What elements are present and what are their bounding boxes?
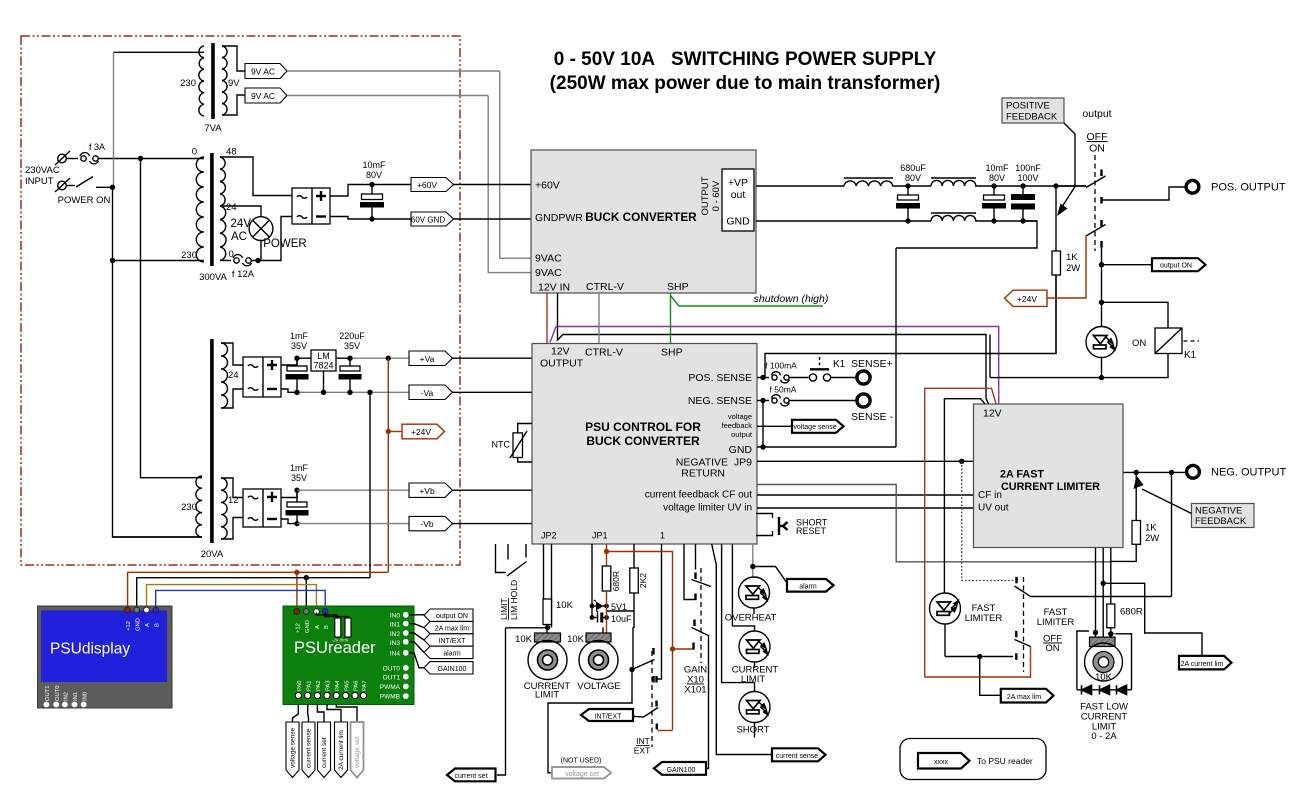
svg-text:voltage set: voltage set (354, 736, 361, 768)
svg-text:FEEDBACK: FEEDBACK (1195, 516, 1247, 527)
svg-text:POSITIVE: POSITIVE (1006, 101, 1050, 112)
svg-text:PA5: PA5 (344, 680, 350, 691)
svg-text:100V: 100V (1017, 173, 1038, 183)
svg-text:2A max lim: 2A max lim (1007, 694, 1041, 701)
svg-text:1K: 1K (1145, 523, 1157, 534)
svg-text:OUT0: OUT0 (383, 666, 401, 673)
svg-text:PA6: PA6 (354, 680, 360, 691)
svg-text:INPUT: INPUT (25, 176, 54, 187)
svg-text:12V: 12V (983, 408, 1002, 420)
svg-text:9VAC: 9VAC (535, 267, 562, 279)
svg-text:LIMIT: LIMIT (499, 598, 509, 620)
svg-text:2A max lim: 2A max lim (435, 626, 469, 633)
svg-text:A: A (145, 623, 151, 627)
svg-text:RESET: RESET (796, 526, 827, 536)
svg-text:f 100mA: f 100mA (765, 361, 797, 371)
svg-text:PA2: PA2 (316, 680, 322, 691)
svg-text:LIMITER: LIMITER (965, 613, 1003, 624)
svg-text:+Vb: +Vb (419, 486, 435, 496)
svg-text:12V IN: 12V IN (538, 282, 570, 294)
svg-text:SENSE+: SENSE+ (851, 358, 893, 370)
svg-text:GND: GND (726, 216, 750, 228)
svg-text:48: 48 (226, 147, 237, 158)
svg-text:PA3: PA3 (326, 680, 332, 691)
svg-text:2W: 2W (1066, 263, 1080, 274)
svg-text:POS. SENSE: POS. SENSE (688, 372, 752, 384)
svg-text:LIMITER: LIMITER (1037, 617, 1075, 628)
svg-text:1mF: 1mF (290, 331, 309, 341)
svg-text:OUT1: OUT1 (383, 675, 401, 682)
svg-text:10mF: 10mF (362, 160, 386, 170)
svg-text:K1: K1 (1184, 350, 1197, 361)
svg-text:0 - 2A: 0 - 2A (1091, 731, 1117, 742)
svg-text:SHP: SHP (661, 347, 683, 359)
svg-text:1: 1 (660, 531, 665, 541)
svg-text:voltage limiter UV in: voltage limiter UV in (663, 503, 752, 514)
svg-text:300VA: 300VA (199, 272, 227, 283)
svg-text:NEG. SENSE: NEG. SENSE (688, 395, 752, 407)
svg-text:(250W max power due to main tr: (250W max power due to main transformer) (550, 73, 941, 94)
svg-text:IN4: IN4 (390, 651, 401, 658)
svg-text:SENSE -: SENSE - (851, 411, 894, 423)
svg-text:OFF: OFF (1087, 131, 1108, 143)
svg-text:current sense: current sense (306, 728, 313, 768)
svg-text:7824: 7824 (313, 361, 333, 371)
svg-text:AC: AC (231, 231, 247, 243)
svg-text:FEEDBACK: FEEDBACK (1006, 112, 1058, 123)
svg-text:POWER ON: POWER ON (58, 195, 111, 206)
svg-text:voltage set: voltage set (565, 771, 599, 778)
svg-text:IN1: IN1 (73, 692, 79, 701)
svg-text:100nF: 100nF (1015, 163, 1041, 173)
svg-text:IN1: IN1 (390, 622, 401, 629)
svg-text:80V: 80V (989, 173, 1005, 183)
svg-text:alarm: alarm (799, 583, 817, 590)
svg-text:EXT: EXT (634, 746, 651, 756)
svg-text:GND: GND (729, 444, 753, 456)
svg-text:B: B (324, 625, 330, 629)
svg-text:0 - 60V: 0 - 60V (711, 180, 722, 211)
svg-text:680uF: 680uF (900, 163, 926, 173)
svg-text:230VAC: 230VAC (25, 165, 60, 176)
svg-text:SHP: SHP (667, 281, 689, 293)
svg-text:10K: 10K (556, 600, 574, 611)
svg-text:10K: 10K (567, 634, 585, 645)
svg-text:12V: 12V (551, 346, 570, 358)
svg-text:CTRL-V: CTRL-V (586, 281, 624, 293)
svg-text:current set: current set (454, 773, 487, 780)
svg-text:POS. OUTPUT: POS. OUTPUT (1211, 182, 1286, 194)
svg-text:A: A (315, 625, 321, 629)
svg-text:1K: 1K (1066, 252, 1078, 263)
svg-text:2W: 2W (1145, 533, 1159, 544)
svg-text:output ON: output ON (1160, 263, 1192, 270)
svg-text:24V: 24V (231, 218, 252, 230)
svg-text:voltage: voltage (728, 412, 752, 421)
svg-text:-Va: -Va (421, 388, 434, 398)
svg-text:output ON: output ON (436, 613, 468, 620)
svg-text:35V: 35V (291, 473, 307, 483)
svg-text:0: 0 (192, 147, 197, 158)
svg-text:JP2: JP2 (541, 531, 557, 541)
svg-text:INT: INT (636, 736, 650, 746)
svg-text:CTRL-V: CTRL-V (585, 347, 623, 359)
svg-text:680R: 680R (1120, 607, 1143, 618)
svg-text:RETURN: RETURN (681, 468, 725, 480)
svg-text:NEG. OUTPUT: NEG. OUTPUT (1211, 467, 1286, 479)
svg-text:xxxx: xxxx (934, 759, 949, 766)
svg-text:-Vb: -Vb (420, 519, 434, 529)
svg-text:out: out (731, 189, 746, 201)
svg-text:alarm: alarm (443, 651, 461, 658)
svg-text:PWMA: PWMA (380, 684, 401, 691)
svg-text:JP1: JP1 (592, 531, 608, 541)
svg-text:1mF: 1mF (290, 463, 309, 473)
svg-text:OUT0: OUT0 (55, 686, 61, 701)
svg-text:+12: +12 (296, 623, 302, 633)
svg-text:10K: 10K (515, 634, 533, 645)
svg-text:GNDPWR: GNDPWR (535, 212, 583, 224)
svg-text:0: 0 (229, 249, 234, 260)
svg-text:OUT1: OUT1 (45, 686, 51, 701)
svg-text:2K2: 2K2 (638, 573, 648, 588)
svg-text:PSU CONTROL FOR: PSU CONTROL FOR (585, 420, 701, 434)
svg-text:BUCK CONVERTER: BUCK CONVERTER (585, 210, 697, 224)
svg-text:PSUreader: PSUreader (294, 639, 376, 657)
svg-text:feedback: feedback (722, 421, 753, 430)
svg-text:+60V: +60V (417, 180, 437, 190)
svg-text:35V: 35V (291, 341, 307, 351)
svg-text:9V: 9V (228, 78, 240, 89)
svg-text:X101: X101 (684, 685, 706, 696)
svg-text:PA0: PA0 (297, 680, 303, 691)
svg-text:LIM HOLD: LIM HOLD (509, 580, 519, 620)
svg-text:0 - 50V 10A SWITCHING POWER: 0 - 50V 10A SWITCHING POWER SUPPLY (554, 49, 937, 70)
svg-text:NTC: NTC (492, 440, 511, 450)
svg-text:IN2: IN2 (64, 692, 70, 701)
svg-text:shutdown (high): shutdown (high) (754, 293, 829, 305)
svg-text:INT/EXT: INT/EXT (595, 714, 623, 721)
svg-text:ON: ON (1132, 338, 1146, 349)
svg-text:10K: 10K (1095, 672, 1113, 683)
svg-text:ON: ON (1089, 143, 1105, 155)
svg-text:current sense: current sense (776, 753, 819, 760)
svg-text:NEGATIVE: NEGATIVE (1195, 506, 1242, 517)
svg-text:output: output (731, 430, 753, 439)
svg-text:680R: 680R (611, 571, 621, 591)
svg-text:230: 230 (181, 250, 197, 261)
svg-text:2A current lim: 2A current lim (1181, 661, 1224, 668)
svg-text:2A current lim: 2A current lim (338, 730, 345, 770)
svg-text:PA1: PA1 (306, 680, 312, 691)
svg-text:(NOT USED): (NOT USED) (561, 758, 602, 765)
svg-text:10uF: 10uF (611, 614, 632, 624)
svg-text:VOLTAGE: VOLTAGE (577, 681, 620, 692)
svg-text:PA7: PA7 (362, 680, 368, 691)
svg-text:9V AC: 9V AC (251, 67, 275, 77)
svg-text:INT/EXT: INT/EXT (439, 638, 467, 645)
svg-text:IN0: IN0 (82, 692, 88, 701)
svg-text:24: 24 (226, 202, 237, 213)
svg-text:24: 24 (228, 370, 239, 381)
svg-text:LIMIT: LIMIT (535, 690, 559, 701)
svg-text:voltage sense: voltage sense (793, 424, 836, 431)
svg-text:GND: GND (135, 618, 141, 631)
svg-text:GND: GND (305, 620, 311, 633)
svg-text:+24V: +24V (411, 427, 431, 437)
svg-text:7VA: 7VA (204, 123, 222, 134)
svg-text:80V: 80V (366, 170, 382, 180)
svg-text:f 12A: f 12A (232, 269, 255, 280)
svg-text:BUCK CONVERTER: BUCK CONVERTER (586, 434, 700, 448)
svg-text:LM: LM (317, 351, 330, 361)
svg-text:current set: current set (321, 737, 328, 768)
svg-text:CURRENT LIMITER: CURRENT LIMITER (1001, 481, 1100, 493)
svg-text:output: output (1082, 108, 1111, 120)
svg-text:+VP: +VP (728, 177, 748, 189)
svg-text:PSUdisplay: PSUdisplay (50, 641, 130, 658)
svg-text:9V AC: 9V AC (251, 91, 275, 101)
svg-text:B: B (154, 623, 160, 627)
svg-text:220uF: 220uF (339, 331, 365, 341)
svg-text:ON: ON (1045, 643, 1059, 654)
svg-text:IN3: IN3 (390, 640, 401, 647)
svg-text:OUTPUT: OUTPUT (700, 176, 711, 215)
svg-text:SHORT: SHORT (736, 725, 769, 736)
svg-text:f 3A: f 3A (89, 142, 105, 152)
svg-text:10mF: 10mF (985, 163, 1009, 173)
svg-text:GAIN100: GAIN100 (438, 666, 467, 673)
svg-text:35V: 35V (344, 341, 360, 351)
svg-text:To PSU reader: To PSU reader (977, 756, 1033, 766)
svg-text:230: 230 (181, 502, 197, 513)
svg-text:f 50mA: f 50mA (770, 385, 797, 395)
svg-text:60V GND: 60V GND (411, 216, 445, 225)
svg-text:CF in: CF in (978, 490, 1002, 501)
svg-text:voltage sense: voltage sense (290, 728, 297, 768)
svg-text:+24V: +24V (1017, 294, 1037, 304)
svg-text:+12: +12 (126, 621, 132, 631)
svg-text:LIMIT: LIMIT (741, 674, 765, 685)
svg-text:GAIN100: GAIN100 (667, 767, 696, 774)
svg-text:2A FAST: 2A FAST (1000, 469, 1044, 481)
svg-text:230: 230 (180, 78, 196, 89)
svg-text:20VA: 20VA (201, 549, 224, 560)
svg-text:current feedback CF out: current feedback CF out (645, 490, 752, 501)
svg-text:+Va: +Va (420, 354, 435, 364)
svg-text:80V: 80V (905, 173, 921, 183)
svg-text:UV out: UV out (978, 503, 1009, 514)
svg-text:PWMB: PWMB (380, 694, 400, 701)
svg-text:OUTPUT: OUTPUT (540, 358, 584, 370)
svg-text:IN2: IN2 (390, 631, 401, 638)
svg-text:IN0: IN0 (390, 613, 401, 620)
svg-text:K1: K1 (833, 359, 846, 370)
svg-text:+60V: +60V (535, 180, 560, 192)
svg-text:POWER: POWER (263, 238, 306, 250)
svg-text:9VAC: 9VAC (535, 253, 562, 265)
svg-text:PA4: PA4 (335, 680, 341, 691)
